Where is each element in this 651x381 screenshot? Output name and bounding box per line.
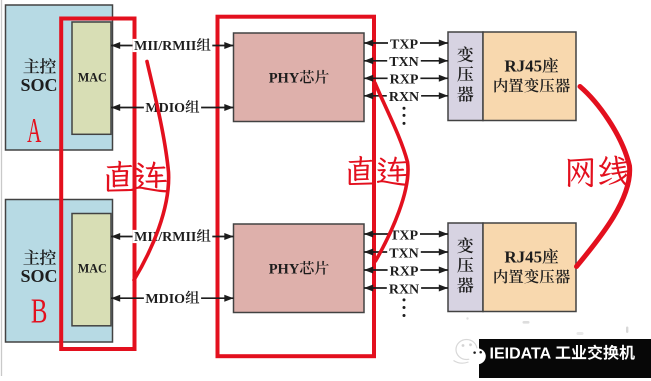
svg-text:TXP: TXP bbox=[390, 228, 418, 243]
svg-text:RXN: RXN bbox=[389, 90, 419, 105]
svg-text:RJ45: RJ45 bbox=[504, 57, 542, 76]
svg-text:B: B bbox=[31, 292, 48, 331]
svg-text:TXN: TXN bbox=[389, 55, 419, 70]
svg-text:SOC: SOC bbox=[20, 266, 57, 286]
svg-text:MDIO: MDIO bbox=[145, 101, 185, 116]
svg-text:PHY: PHY bbox=[269, 262, 300, 278]
svg-text:PHY: PHY bbox=[269, 71, 300, 87]
svg-text:MDIO: MDIO bbox=[145, 292, 185, 307]
svg-text:RJ45: RJ45 bbox=[504, 248, 542, 267]
svg-text:RXP: RXP bbox=[390, 73, 419, 88]
svg-text:IEIDATA: IEIDATA bbox=[490, 345, 552, 362]
svg-text:TXP: TXP bbox=[390, 37, 418, 52]
svg-text:MAC: MAC bbox=[78, 261, 107, 275]
svg-text:MAC: MAC bbox=[78, 70, 107, 84]
svg-text:RXN: RXN bbox=[389, 282, 419, 297]
svg-text:MII/RMII: MII/RMII bbox=[134, 39, 196, 54]
svg-text:A: A bbox=[27, 113, 42, 151]
svg-text:MII/RMII: MII/RMII bbox=[134, 230, 196, 245]
svg-text:RXP: RXP bbox=[390, 264, 419, 279]
svg-text:TXN: TXN bbox=[389, 246, 419, 261]
svg-text:SOC: SOC bbox=[20, 75, 57, 95]
